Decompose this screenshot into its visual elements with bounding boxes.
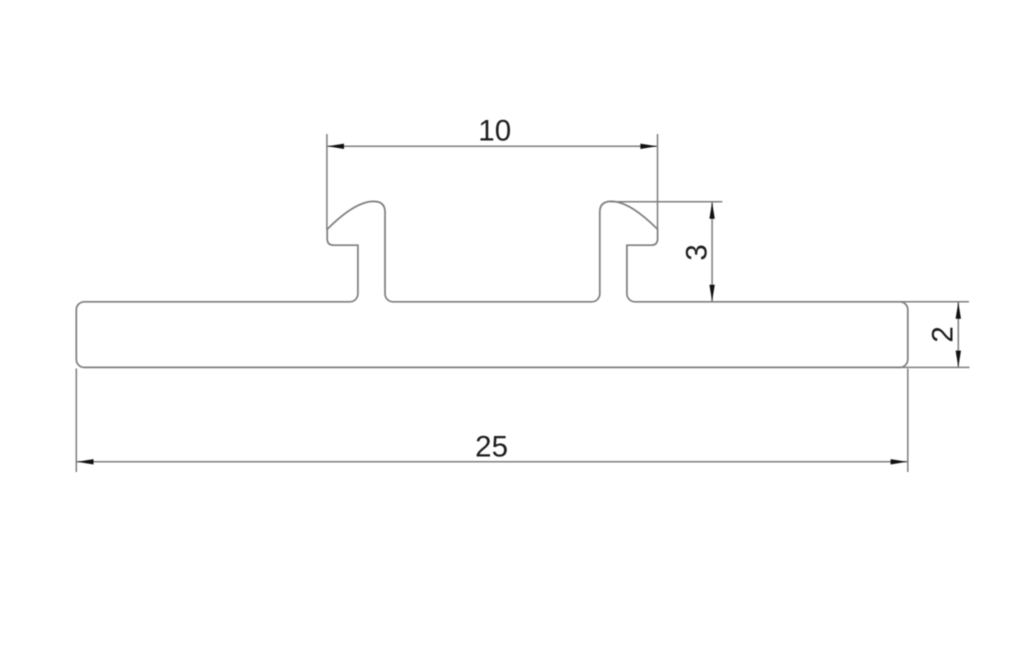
dim3 extension line top	[611, 201, 722, 203]
dim25 extension line left	[75, 369, 77, 473]
dim2 arrow up	[956, 302, 961, 319]
dim10 arrow left	[328, 144, 345, 149]
dim25 dimension line	[77, 461, 907, 463]
svg-text:25: 25	[475, 431, 508, 464]
dim10 extension line right	[657, 134, 659, 230]
dim3 arrow up	[709, 202, 714, 219]
svg-text:3: 3	[680, 244, 713, 260]
dim10 extension line left	[326, 134, 328, 230]
profile outline	[76, 201, 908, 367]
dim3 arrow down	[709, 285, 714, 302]
dim10 arrow right	[640, 144, 657, 149]
svg-text:10: 10	[478, 115, 511, 148]
dim10 dimension line	[328, 145, 657, 147]
dim25 arrow right	[891, 459, 908, 464]
svg-text:2: 2	[927, 326, 960, 342]
dim3 dimension line	[711, 202, 713, 301]
dim2 extension line bottom	[898, 366, 970, 368]
dim2 dimension line	[957, 302, 959, 367]
dim2 extension line top	[898, 301, 969, 303]
dim2 arrow down	[956, 351, 961, 368]
dim25 arrow left	[77, 459, 94, 464]
dim25 extension line right	[907, 369, 909, 473]
